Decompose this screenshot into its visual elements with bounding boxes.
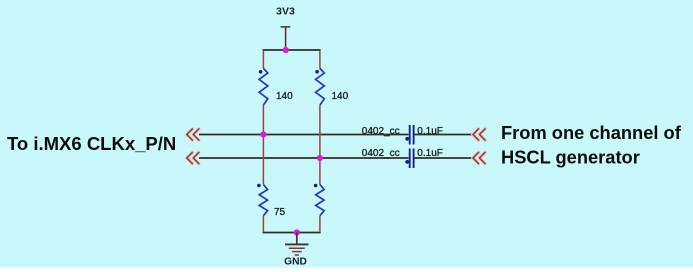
svg-text:140: 140 [276,91,293,102]
svg-text:0.1uF: 0.1uF [417,126,443,137]
svg-text:GND: GND [284,256,307,267]
svg-text:HSCL generator: HSCL generator [501,147,640,168]
svg-text:To i.MX6 CLKx_P/N: To i.MX6 CLKx_P/N [7,133,176,154]
svg-text:140: 140 [332,91,349,102]
svg-text:0402_cc: 0402_cc [362,148,400,159]
svg-text:3V3: 3V3 [276,6,295,18]
svg-text:0402_cc: 0402_cc [362,126,400,137]
svg-text:From one channel of: From one channel of [501,122,682,143]
svg-text:75: 75 [274,207,286,218]
svg-text:0.1uF: 0.1uF [417,148,443,159]
